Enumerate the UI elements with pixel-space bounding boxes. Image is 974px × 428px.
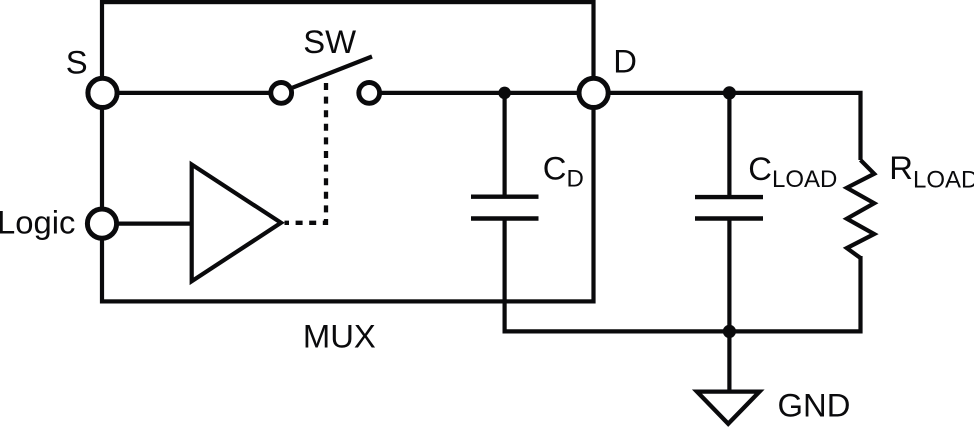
terminal D [579,78,608,107]
switch SW lever [293,57,373,88]
wire S to switch [103,91,282,95]
svg-text:MUX: MUX [303,317,376,354]
svg-text:SW: SW [303,23,356,60]
node dot at CLOAD tap [723,86,736,99]
node dot at ground rail [723,325,736,338]
terminal S [88,78,117,107]
switch pole contact [271,83,292,104]
wire D to R_LOAD top and R_LOAD top lead [594,93,861,160]
capacitor CD bottom wire [503,219,507,334]
terminal Logic [87,209,116,238]
ground rail wire [505,256,861,331]
svg-text:S: S [66,43,88,80]
capacitor CLOAD bottom wire [727,219,731,332]
node dot at CD tap [498,87,511,100]
capacitor CLOAD bottom plate [695,216,763,220]
capacitor CLOAD top plate [695,195,763,199]
MUX box U1 [102,2,594,301]
svg-text:D: D [613,43,637,80]
svg-text:GND: GND [778,387,851,424]
capacitor CD bottom plate [471,216,539,220]
capacitor CD top plate [471,194,539,198]
dashed control link from buffer to switch [285,83,327,223]
op-amp buffer A1 (logic driver triangle) [192,165,281,282]
svg-text:Logic: Logic [0,203,75,240]
wire Logic to buffer input [102,222,192,226]
wire switch to D node [369,91,594,95]
ground symbol triangle [697,392,760,424]
wire ground node to GND symbol [727,331,731,390]
capacitor CD top wire [503,93,507,197]
switch throw contact [359,83,380,104]
resistor RLOAD zigzag body [847,160,874,258]
capacitor CLOAD top wire [727,93,731,197]
